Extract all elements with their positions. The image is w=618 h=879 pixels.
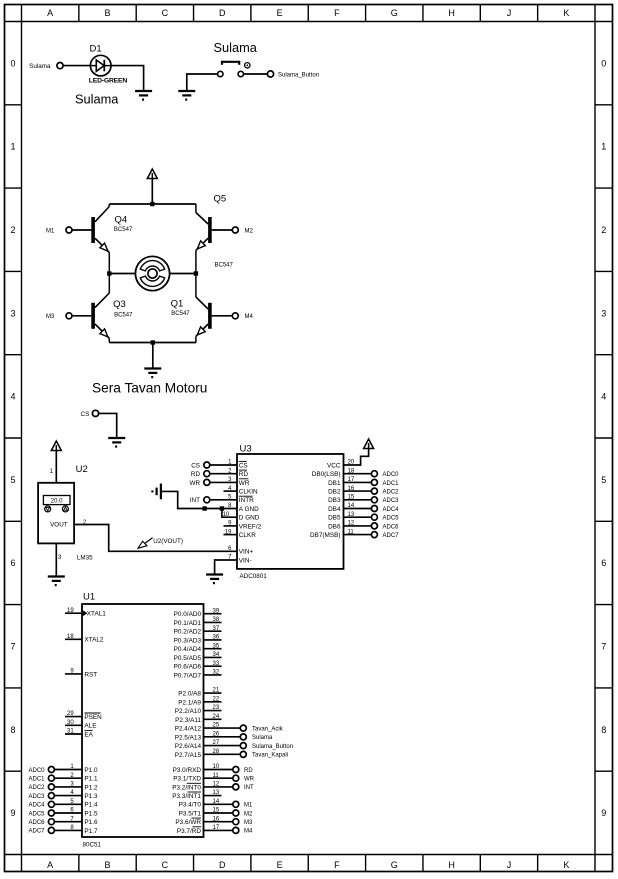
- svg-text:P0.7/AD7: P0.7/AD7: [174, 672, 202, 679]
- svg-text:Q4: Q4: [115, 215, 128, 226]
- transistor Q4: [91, 217, 95, 243]
- svg-text:M3: M3: [244, 820, 253, 826]
- svg-text:CLKR: CLKR: [239, 532, 256, 539]
- svg-text:P1.6: P1.6: [84, 819, 98, 826]
- terminal M3: [66, 313, 72, 319]
- svg-text:3: 3: [10, 308, 15, 318]
- svg-text:ADC1: ADC1: [383, 481, 400, 487]
- wire to ground (H-bridge): [152, 343, 154, 369]
- svg-text:ADC7: ADC7: [28, 829, 45, 835]
- svg-text:ADC7: ADC7: [383, 533, 400, 539]
- svg-text:K: K: [563, 8, 569, 18]
- svg-text:35: 35: [213, 643, 220, 649]
- svg-text:Q5: Q5: [214, 194, 227, 205]
- svg-text:P1.1: P1.1: [84, 776, 98, 783]
- svg-text:8: 8: [10, 725, 15, 735]
- svg-text:P0.5/AD5: P0.5/AD5: [174, 655, 202, 662]
- svg-text:ADC3: ADC3: [28, 794, 45, 800]
- wire DB2: [344, 490, 372, 492]
- svg-text:ADC0: ADC0: [383, 472, 400, 478]
- wire button to terminal: [244, 73, 268, 75]
- svg-text:P3.4/T0: P3.4/T0: [179, 802, 202, 809]
- svg-text:10: 10: [213, 764, 220, 770]
- U1 pin 24 P2.3/A11: [204, 718, 222, 720]
- power arrow (H-bridge +V): [147, 169, 157, 179]
- svg-text:INT: INT: [190, 497, 200, 504]
- svg-text:1: 1: [601, 142, 606, 152]
- U1 pin 27 P2.6/A14: [204, 745, 241, 747]
- svg-text:ADC4: ADC4: [383, 507, 400, 513]
- svg-text:29: 29: [67, 711, 74, 717]
- junction motor right: [194, 271, 198, 275]
- U3 stub pin CLKR: [224, 534, 238, 536]
- svg-text:A: A: [47, 8, 53, 18]
- U1 pin 35 P0.4/AD4: [204, 648, 222, 650]
- svg-text:11: 11: [213, 773, 220, 779]
- svg-text:DB1: DB1: [328, 480, 341, 487]
- svg-text:RST: RST: [84, 671, 97, 678]
- svg-text:E: E: [277, 860, 283, 870]
- svg-text:E: E: [277, 8, 283, 18]
- U1 pin 22 P2.1/A9: [204, 701, 222, 703]
- terminal ADC6: [371, 523, 377, 529]
- svg-text:Sera Tavan Motoru: Sera Tavan Motoru: [92, 381, 207, 396]
- svg-text:ADC5: ADC5: [28, 811, 45, 817]
- terminal Sulama_Button: [267, 71, 273, 77]
- terminal ADC1: [371, 479, 377, 485]
- svg-text:VIN-: VIN-: [239, 557, 252, 564]
- svg-text:Sulama: Sulama: [29, 63, 51, 70]
- wire DB3: [344, 499, 372, 501]
- svg-text:XTAL1: XTAL1: [87, 611, 107, 618]
- svg-text:15: 15: [213, 808, 220, 814]
- svg-text:INTR: INTR: [239, 497, 254, 504]
- wire M3 base: [72, 315, 91, 317]
- svg-text:ADC2: ADC2: [383, 490, 400, 496]
- U1 pin 15 P3.5/T1: [204, 812, 233, 814]
- ground (CS): [108, 437, 125, 439]
- terminal M1: [66, 227, 72, 233]
- svg-text:6: 6: [601, 558, 606, 568]
- svg-text:DB4: DB4: [328, 506, 341, 513]
- svg-text:P2.7/A15: P2.7/A15: [175, 752, 202, 759]
- svg-text:P3.6/WR: P3.6/WR: [175, 819, 201, 826]
- wire DB6: [344, 525, 372, 527]
- svg-text:J: J: [507, 860, 512, 870]
- terminal RD (U3): [210, 473, 237, 475]
- svg-text:26: 26: [213, 731, 220, 737]
- svg-text:ADC0: ADC0: [28, 768, 45, 774]
- svg-text:3: 3: [601, 308, 606, 318]
- ground (U2): [48, 575, 65, 577]
- U1 pin 2 P1.1: [54, 777, 82, 779]
- svg-text:P1.0: P1.0: [84, 767, 98, 774]
- svg-text:VOUT: VOUT: [50, 522, 68, 529]
- wire VIN- to ground: [215, 560, 237, 574]
- svg-text:BC547: BC547: [215, 262, 234, 268]
- terminal ADC7: [371, 532, 377, 538]
- svg-text:D: D: [219, 860, 226, 870]
- U1 pin 3 P1.2: [54, 786, 82, 788]
- svg-text:CS: CS: [239, 462, 248, 469]
- svg-text:M2: M2: [244, 811, 253, 817]
- transistor Q3: [91, 303, 95, 329]
- svg-text:D: D: [219, 8, 226, 18]
- svg-text:P3.3/INT1: P3.3/INT1: [172, 793, 201, 800]
- junction bottom rail: [151, 340, 155, 344]
- U1 pin 16 P3.6/WR: [204, 821, 233, 823]
- svg-text:P3.5/T1: P3.5/T1: [179, 810, 202, 817]
- svg-text:A GND: A GND: [239, 506, 259, 513]
- svg-text:Sulama_Button: Sulama_Button: [252, 744, 293, 750]
- svg-text:RD: RD: [239, 471, 249, 478]
- svg-text:7: 7: [10, 641, 15, 651]
- svg-text:Q3: Q3: [113, 299, 126, 310]
- wire pin 3 (U2): [55, 543, 57, 576]
- LED D1: [90, 55, 111, 76]
- svg-text:P3.2/INT0: P3.2/INT0: [172, 784, 201, 791]
- svg-text:ADC0801: ADC0801: [240, 573, 268, 580]
- svg-text:21: 21: [213, 688, 220, 694]
- svg-text:M1: M1: [46, 228, 55, 234]
- svg-text:C: C: [162, 860, 169, 870]
- wire terminal to D1: [63, 65, 90, 67]
- svg-text:0: 0: [601, 58, 606, 68]
- svg-text:ALE: ALE: [84, 723, 96, 730]
- svg-text:U2: U2: [76, 464, 88, 475]
- wire VCC to power (U3): [344, 449, 369, 466]
- svg-text:32: 32: [213, 670, 220, 676]
- junction AGND 2: [220, 506, 224, 510]
- svg-text:F: F: [334, 860, 340, 870]
- U1 pin 9 RST: [65, 673, 82, 675]
- wire M4 base: [212, 315, 233, 317]
- svg-text:Tavan_Acik: Tavan_Acik: [252, 726, 284, 732]
- svg-text:BC547: BC547: [114, 313, 133, 319]
- wire DB5: [344, 516, 372, 518]
- svg-text:5: 5: [601, 475, 606, 485]
- svg-text:INT: INT: [244, 785, 254, 791]
- svg-text:80C51: 80C51: [83, 842, 102, 849]
- svg-text:M2: M2: [245, 228, 254, 234]
- svg-text:P0.6/AD6: P0.6/AD6: [174, 664, 202, 671]
- svg-text:ADC4: ADC4: [28, 803, 45, 809]
- svg-text:P2.0/A8: P2.0/A8: [178, 691, 201, 698]
- svg-text:M4: M4: [244, 829, 253, 835]
- wire AGND net: [162, 491, 237, 508]
- svg-text:B: B: [105, 860, 111, 870]
- terminal M4: [232, 313, 238, 319]
- svg-text:WR: WR: [244, 777, 255, 783]
- svg-text:37: 37: [213, 626, 220, 632]
- wire ground to button contact: [187, 74, 218, 91]
- U1 pin 4 P1.3: [54, 795, 82, 797]
- svg-text:LED-GREEN: LED-GREEN: [89, 78, 128, 85]
- svg-text:36: 36: [213, 635, 220, 641]
- svg-text:4: 4: [10, 392, 15, 402]
- svg-text:CLKIN: CLKIN: [239, 489, 258, 496]
- svg-text:P0.3/AD3: P0.3/AD3: [174, 637, 202, 644]
- wire M2 base: [212, 229, 233, 231]
- svg-text:DB3: DB3: [328, 497, 341, 504]
- svg-text:PSEN: PSEN: [84, 714, 102, 721]
- svg-text:34: 34: [213, 652, 220, 658]
- terminal ADC0: [371, 471, 377, 477]
- U1 pin 29 PSEN: [65, 716, 82, 718]
- terminal ADC5: [371, 514, 377, 520]
- svg-text:31: 31: [67, 729, 74, 735]
- svg-text:B: B: [105, 8, 111, 18]
- svg-text:33: 33: [213, 661, 220, 667]
- U1 pin 19 XTAL1: [65, 612, 82, 614]
- svg-text:VREF/2: VREF/2: [239, 523, 262, 530]
- svg-text:CS: CS: [191, 462, 200, 469]
- U1 pin 37 P0.2/AD2: [204, 630, 222, 632]
- svg-text:P2.1/A9: P2.1/A9: [178, 699, 201, 706]
- ground (U3 VIN-): [206, 573, 223, 575]
- wire motor right: [170, 273, 196, 275]
- svg-text:DB2: DB2: [328, 489, 341, 496]
- svg-text:ADC3: ADC3: [383, 498, 400, 504]
- svg-text:P2.3/A11: P2.3/A11: [175, 717, 201, 724]
- U1 pin 8 P1.7: [54, 829, 82, 831]
- svg-text:2: 2: [601, 225, 606, 235]
- svg-text:P3.7/RD: P3.7/RD: [177, 828, 202, 835]
- svg-text:RD: RD: [244, 768, 253, 774]
- svg-text:7: 7: [601, 641, 606, 651]
- terminal CS (U3): [210, 464, 237, 466]
- svg-text:12: 12: [213, 782, 220, 788]
- svg-text:F: F: [334, 8, 340, 18]
- svg-text:P1.3: P1.3: [84, 793, 98, 800]
- U1 pin 30 ALE: [65, 724, 82, 726]
- U1 pin 23 P2.2/A10: [204, 710, 222, 712]
- U1 pin 26 P2.5/A13: [204, 736, 241, 738]
- svg-text:ADC6: ADC6: [383, 524, 400, 530]
- svg-text:U3: U3: [240, 444, 252, 455]
- svg-text:EA: EA: [84, 731, 93, 738]
- U1 pin 28 P2.7/A15: [204, 753, 241, 755]
- U1 pin 17 P3.7/RD: [204, 829, 233, 831]
- power arrow (U2): [51, 441, 61, 451]
- svg-text:WR: WR: [239, 480, 250, 487]
- svg-text:8: 8: [601, 725, 606, 735]
- svg-text:P3.1/TXD: P3.1/TXD: [173, 776, 201, 783]
- wire bottom rail: [109, 342, 196, 344]
- ground (button): [178, 90, 195, 92]
- rotated ground (U3 AGND/DGND): [160, 484, 162, 500]
- svg-text:C: C: [162, 8, 169, 18]
- power arrow (U3 VCC): [364, 439, 374, 449]
- svg-text:DB6: DB6: [328, 523, 341, 530]
- svg-text:30: 30: [67, 720, 74, 726]
- svg-text:Tavan_Kapali: Tavan_Kapali: [252, 753, 288, 759]
- U1 pin 12 P3.2/INT0: [204, 786, 233, 788]
- svg-text:Q1: Q1: [171, 299, 184, 310]
- wire DB1: [344, 481, 372, 483]
- svg-text:H: H: [448, 8, 455, 18]
- wire M1 base: [72, 229, 91, 231]
- terminal ADC4: [371, 506, 377, 512]
- svg-text:RD: RD: [191, 471, 201, 478]
- svg-text:ADC5: ADC5: [383, 516, 400, 522]
- wire DB4: [344, 508, 372, 510]
- U1 pin 36 P0.3/AD3: [204, 639, 222, 641]
- svg-text:18: 18: [67, 634, 74, 640]
- svg-text:28: 28: [213, 749, 220, 755]
- U1 pin 13 P3.3/INT1: [204, 795, 222, 797]
- svg-text:39: 39: [213, 608, 220, 614]
- svg-text:16: 16: [213, 816, 220, 822]
- terminal ADC3: [371, 497, 377, 503]
- wire motor left: [109, 273, 135, 275]
- svg-text:13: 13: [213, 790, 220, 796]
- terminal ADC2: [371, 488, 377, 494]
- svg-text:14: 14: [213, 799, 220, 805]
- U1 pin 18 XTAL2: [65, 638, 82, 640]
- wire DB0: [344, 473, 372, 475]
- terminal INT (U3): [210, 499, 237, 501]
- junction AGND 1: [202, 506, 206, 510]
- svg-text:P0.4/AD4: P0.4/AD4: [174, 646, 202, 653]
- svg-text:6: 6: [10, 558, 15, 568]
- svg-text:ADC6: ADC6: [28, 820, 45, 826]
- svg-text:17: 17: [213, 825, 220, 831]
- svg-text:VIN+: VIN+: [239, 549, 254, 556]
- svg-text:P2.2/A10: P2.2/A10: [175, 708, 202, 715]
- U1 pin 32 P0.7/AD7: [204, 674, 222, 676]
- U1 pin 34 P0.5/AD5: [204, 656, 222, 658]
- wire CS to ground: [99, 413, 117, 437]
- svg-text:5: 5: [10, 475, 15, 485]
- ground (H-bridge): [144, 367, 161, 369]
- svg-text:0: 0: [10, 58, 15, 68]
- svg-text:D1: D1: [90, 44, 102, 55]
- svg-text:9: 9: [10, 808, 15, 818]
- U1 pin 39 P0.0/AD0: [204, 613, 222, 615]
- svg-text:M3: M3: [46, 314, 55, 320]
- svg-text:22: 22: [213, 696, 220, 702]
- U3 stub pin CLKIN: [224, 490, 238, 492]
- wire DGND branch: [222, 509, 237, 518]
- svg-text:LM35: LM35: [77, 555, 93, 562]
- svg-text:K: K: [563, 860, 569, 870]
- svg-text:DB5: DB5: [328, 515, 341, 522]
- svg-text:P1.4: P1.4: [84, 802, 98, 809]
- svg-text:20.0: 20.0: [51, 499, 63, 505]
- svg-text:P1.7: P1.7: [84, 828, 98, 835]
- transistor Q5: [208, 217, 212, 243]
- svg-text:Sulama: Sulama: [75, 92, 119, 107]
- ground (LED): [135, 90, 152, 92]
- svg-text:Sulama: Sulama: [214, 40, 258, 55]
- U1 pin 7 P1.6: [54, 821, 82, 823]
- svg-text:D GND: D GND: [239, 515, 260, 522]
- U1 pin 1 P1.0: [54, 769, 82, 771]
- svg-text:ADC1: ADC1: [28, 777, 45, 783]
- wire pin 1 (U2): [55, 451, 57, 483]
- U1 pin 10 P3.0/RXD: [204, 769, 233, 771]
- svg-text:BC547: BC547: [171, 311, 190, 317]
- motor (Sera Tavan Motoru): [135, 256, 169, 290]
- U1 pin 14 P3.4/T0: [204, 803, 233, 805]
- svg-text:27: 27: [213, 740, 220, 746]
- svg-text:P0.2/AD2: P0.2/AD2: [174, 629, 202, 636]
- svg-text:P2.4/A12: P2.4/A12: [175, 726, 202, 733]
- svg-text:1: 1: [10, 142, 15, 152]
- svg-text:9: 9: [601, 808, 606, 818]
- wire DB7: [344, 534, 372, 536]
- svg-text:24: 24: [213, 714, 220, 720]
- svg-text:J: J: [507, 8, 512, 18]
- svg-text:M4: M4: [245, 314, 254, 320]
- svg-text:19: 19: [67, 608, 74, 614]
- junction motor left: [107, 271, 111, 275]
- U1 pin 6 P1.5: [54, 812, 82, 814]
- U1 pin 21 P2.0/A8: [204, 692, 222, 694]
- U1 pin 38 P0.1/AD1: [204, 621, 222, 623]
- svg-text:25: 25: [213, 723, 220, 729]
- svg-text:P0.0/AD0: P0.0/AD0: [174, 611, 202, 618]
- svg-text:ADC2: ADC2: [28, 785, 45, 791]
- U1 pin 31 EA: [65, 733, 82, 735]
- junction top rail: [150, 202, 154, 206]
- svg-text:DB7(MSB): DB7(MSB): [310, 532, 341, 539]
- svg-text:P2.5/A13: P2.5/A13: [175, 734, 202, 741]
- svg-text:38: 38: [213, 617, 220, 623]
- svg-text:WR: WR: [190, 480, 201, 487]
- svg-text:P3.0/RXD: P3.0/RXD: [173, 767, 202, 774]
- transistor Q1: [208, 303, 212, 329]
- U3 stub pin VREF/2: [224, 525, 238, 527]
- svg-text:A: A: [47, 860, 53, 870]
- U1 pin 11 P3.1/TXD: [204, 777, 233, 779]
- svg-text:P0.1/AD1: P0.1/AD1: [174, 620, 202, 627]
- svg-text:G: G: [391, 8, 398, 18]
- terminal M2: [232, 227, 238, 233]
- svg-text:VCC: VCC: [327, 462, 341, 469]
- svg-text:P2.6/A14: P2.6/A14: [175, 743, 202, 750]
- U1 pin 25 P2.4/A12: [204, 727, 241, 729]
- U1 pin 33 P0.6/AD6: [204, 665, 222, 667]
- svg-text:P1.2: P1.2: [84, 784, 98, 791]
- svg-text:Sulama_Button: Sulama_Button: [278, 72, 319, 78]
- terminal WR (U3): [210, 481, 237, 483]
- svg-text:CS: CS: [81, 411, 90, 418]
- svg-text:XTAL2: XTAL2: [84, 637, 104, 644]
- push button (Sulama): [218, 71, 223, 76]
- svg-text:H: H: [448, 860, 455, 870]
- svg-text:M1: M1: [244, 803, 253, 809]
- svg-text:P1.5: P1.5: [84, 810, 98, 817]
- svg-text:2: 2: [10, 225, 15, 235]
- svg-text:4: 4: [601, 392, 606, 402]
- svg-text:U1: U1: [83, 592, 95, 603]
- svg-text:BC547: BC547: [114, 227, 133, 233]
- wire D1 to ground: [111, 66, 144, 91]
- svg-text:G: G: [391, 860, 398, 870]
- svg-text:DB0(LSB): DB0(LSB): [312, 471, 341, 478]
- U1 pin 5 P1.4: [54, 803, 82, 805]
- svg-text:Sulama: Sulama: [252, 735, 273, 741]
- svg-text:23: 23: [213, 705, 220, 711]
- wire top rail: [109, 203, 196, 205]
- svg-text:U2(VOUT): U2(VOUT): [153, 538, 183, 545]
